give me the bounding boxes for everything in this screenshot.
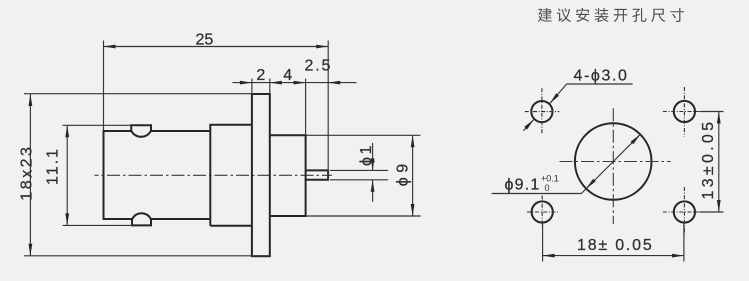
svg-text:ϕ9: ϕ9 [395, 159, 412, 186]
hole bottom-right [663, 187, 706, 237]
connector shell body [104, 131, 211, 219]
svg-text:4: 4 [283, 67, 292, 84]
title 建议安装开孔尺寸 [538, 8, 684, 22]
dimension 2 / 4 / 2.5 row [233, 57, 357, 135]
svg-text:2: 2 [256, 67, 265, 84]
contact pin [306, 170, 329, 179]
hole bottom-left [527, 196, 558, 229]
dimension phi1 [330, 143, 388, 202]
mounting flange [252, 94, 270, 256]
dimension 18± 0.05 [543, 223, 684, 262]
svg-text:13±0.05: 13±0.05 [700, 119, 717, 200]
coupling nut section [210, 125, 252, 226]
svg-text:+0.1: +0.1 [541, 174, 559, 184]
rear body [270, 135, 306, 216]
hole top-left [525, 88, 560, 134]
dimension 11.1 [45, 125, 133, 225]
bottom bayonet lug [132, 213, 151, 225]
big circle phi9.1 [575, 123, 652, 200]
hole top-right [663, 87, 706, 137]
svg-text:ϕ1: ϕ1 [358, 143, 375, 166]
leader 4-phi3.0 [523, 67, 632, 130]
dimension 18x23 [19, 94, 271, 256]
svg-text:4-ϕ3.0: 4-ϕ3.0 [574, 67, 629, 84]
svg-text:18± 0.05: 18± 0.05 [577, 237, 654, 254]
svg-text:25: 25 [196, 31, 214, 48]
svg-text:2.5: 2.5 [305, 57, 333, 74]
dimension 25 [104, 31, 329, 180]
dimension 13±0.05 [700, 112, 724, 213]
svg-text:18x23: 18x23 [19, 145, 36, 201]
leader phi9.1 with tolerance [492, 134, 641, 193]
dimension phi9 [306, 135, 421, 216]
svg-text:11.1: 11.1 [45, 147, 62, 185]
svg-text:ϕ9.1: ϕ9.1 [505, 176, 541, 193]
centerline left view [95, 174, 333, 176]
big circle centerlines [560, 108, 671, 224]
top bayonet lug [131, 125, 151, 137]
svg-text:0: 0 [545, 183, 550, 193]
